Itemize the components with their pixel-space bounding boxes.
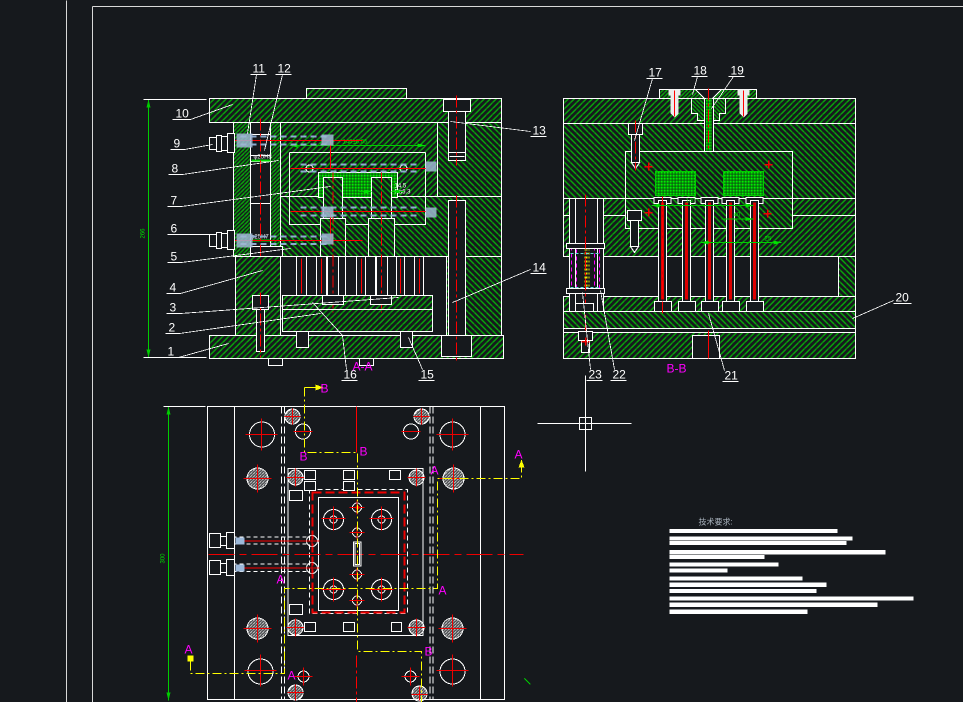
svg-text:9: 9 — [174, 137, 181, 151]
water fittings — [210, 533, 235, 576]
svg-text:A: A — [431, 464, 439, 478]
sprue cone cut — [696, 90, 722, 99]
bolt 13 — [449, 111, 466, 161]
top tab — [307, 89, 407, 99]
svg-text:A: A — [515, 448, 523, 462]
labels 17 18 19 — [649, 64, 745, 80]
feet — [269, 359, 283, 366]
svg-text:技术要求:: 技术要求: — [699, 517, 733, 527]
green dims — [652, 205, 754, 207]
svg-text:B: B — [425, 645, 433, 659]
ejector plate 2 — [283, 310, 433, 332]
svg-text:2: 2 — [169, 321, 176, 335]
bottom notch — [693, 336, 720, 359]
support block left 4 — [236, 257, 281, 336]
yellow section line A — [188, 656, 194, 662]
outer plate rect — [208, 407, 505, 700]
A plate — [564, 124, 856, 199]
red centerline of guide column — [260, 119, 262, 261]
svg-text:23: 23 — [589, 368, 603, 382]
frame border lines — [66, 1, 68, 702]
cavity pocket — [290, 152, 426, 154]
cavity insert with molded part — [319, 173, 398, 198]
bottom plate — [564, 333, 856, 359]
svg-text:A: A — [288, 669, 296, 683]
svg-text:19: 19 — [731, 64, 745, 78]
left guide channel — [251, 123, 271, 257]
ejector pins — [655, 197, 672, 314]
blue-gray plugs — [237, 134, 437, 248]
labels 11-16 — [253, 62, 547, 382]
small bolt mid-left — [628, 211, 642, 221]
labels 1-10 — [168, 107, 190, 359]
bottom plate 1 — [210, 336, 504, 359]
white dashed inner rect — [310, 490, 408, 614]
guide dash columns — [282, 407, 434, 700]
svg-text:φ25H7: φ25H7 — [251, 235, 270, 241]
big bolt circles — [245, 419, 469, 687]
svg-text:1: 1 — [168, 345, 175, 359]
ejector retainer 3 — [283, 296, 433, 310]
red dashed rect — [313, 493, 405, 613]
top clamping plate 10 — [210, 99, 502, 123]
support rail right — [839, 257, 856, 297]
svg-text:10: 10 — [176, 107, 190, 121]
frame corner circles — [287, 469, 426, 637]
red cross marks — [582, 161, 773, 346]
left guide bushing column — [570, 199, 604, 312]
svg-text:6: 6 — [171, 222, 178, 236]
molded parts — [656, 172, 696, 196]
svg-text:15: 15 — [421, 368, 435, 382]
svg-text:17: 17 — [649, 66, 663, 80]
top clamping plate — [564, 99, 856, 124]
cooling channels — [212, 537, 310, 572]
svg-text:20: 20 — [896, 291, 910, 305]
ejector retainer — [564, 297, 856, 312]
inner white rect — [319, 498, 399, 611]
svg-text:B-B: B-B — [667, 362, 687, 376]
center small circles and slot — [353, 503, 362, 512]
plain circles on columns — [296, 424, 311, 439]
small 4-petal circles — [285, 409, 300, 424]
gap strip — [564, 329, 856, 333]
screw 6 — [210, 231, 235, 250]
svg-text:21: 21 — [725, 369, 739, 383]
ejector base plate — [564, 312, 856, 329]
svg-text:14: 14 — [533, 261, 547, 275]
ring bolt right — [738, 90, 750, 96]
svg-text:A: A — [185, 643, 193, 657]
sprue channel — [705, 99, 714, 198]
svg-text:140: 140 — [686, 199, 697, 205]
svg-text:25: 25 — [765, 237, 772, 243]
ring bolt left — [669, 90, 681, 96]
yellow section line B — [305, 387, 316, 389]
insert box — [626, 152, 793, 229]
ejector pins thin — [297, 257, 424, 296]
svg-text:B: B — [300, 450, 308, 464]
svg-text:7: 7 — [171, 194, 178, 208]
svg-text:11: 11 — [253, 62, 266, 76]
svg-text:266: 266 — [141, 228, 147, 239]
hatched guide circles — [244, 465, 468, 643]
cavity ejector circles — [322, 507, 394, 602]
svg-text:B: B — [321, 382, 329, 396]
red main centerlines — [209, 554, 524, 556]
svg-text:φ25H8: φ25H8 — [254, 155, 273, 161]
ejector bolt bottom left — [253, 296, 269, 310]
ejector pin caps — [654, 198, 763, 204]
svg-text:12: 12 — [278, 62, 292, 76]
cooling lines red/blue — [234, 140, 363, 142]
left guide column hatch — [234, 123, 251, 257]
B plate — [234, 197, 502, 257]
svg-text:18: 18 — [694, 64, 708, 78]
svg-text:3: 3 — [170, 301, 177, 315]
sprue bushing — [692, 99, 726, 121]
svg-text:A: A — [277, 573, 285, 587]
A plate — [281, 123, 502, 197]
svg-text:B: B — [360, 445, 368, 459]
svg-text:8: 8 — [172, 162, 179, 176]
green dim 14.5 pin — [360, 191, 372, 193]
labels 21 22 23 — [589, 368, 739, 383]
svg-text:22: 22 — [613, 368, 627, 382]
central mold frame — [288, 469, 423, 636]
bolt under bushing — [579, 332, 593, 341]
green dim 140 — [290, 145, 426, 147]
svg-text:4: 4 — [170, 281, 177, 295]
svg-text:40: 40 — [734, 213, 741, 219]
small bolts under ejector plate — [297, 332, 309, 348]
screw 9 — [210, 134, 235, 153]
svg-text:A-A: A-A — [353, 360, 373, 374]
svg-text:5: 5 — [171, 250, 178, 264]
small texture boxes — [290, 471, 402, 632]
parting line — [564, 198, 856, 200]
dim 266 — [148, 100, 150, 358]
bolt 17 — [629, 124, 643, 135]
svg-text:A: A — [439, 584, 447, 598]
bolt 14 — [449, 201, 466, 336]
support block right — [447, 257, 502, 336]
B plate — [564, 199, 856, 257]
locating ring — [660, 90, 757, 99]
svg-text:300: 300 — [161, 553, 167, 564]
core pin channels — [324, 178, 343, 257]
svg-text:13: 13 — [533, 124, 547, 138]
green dim 300 — [168, 407, 170, 701]
